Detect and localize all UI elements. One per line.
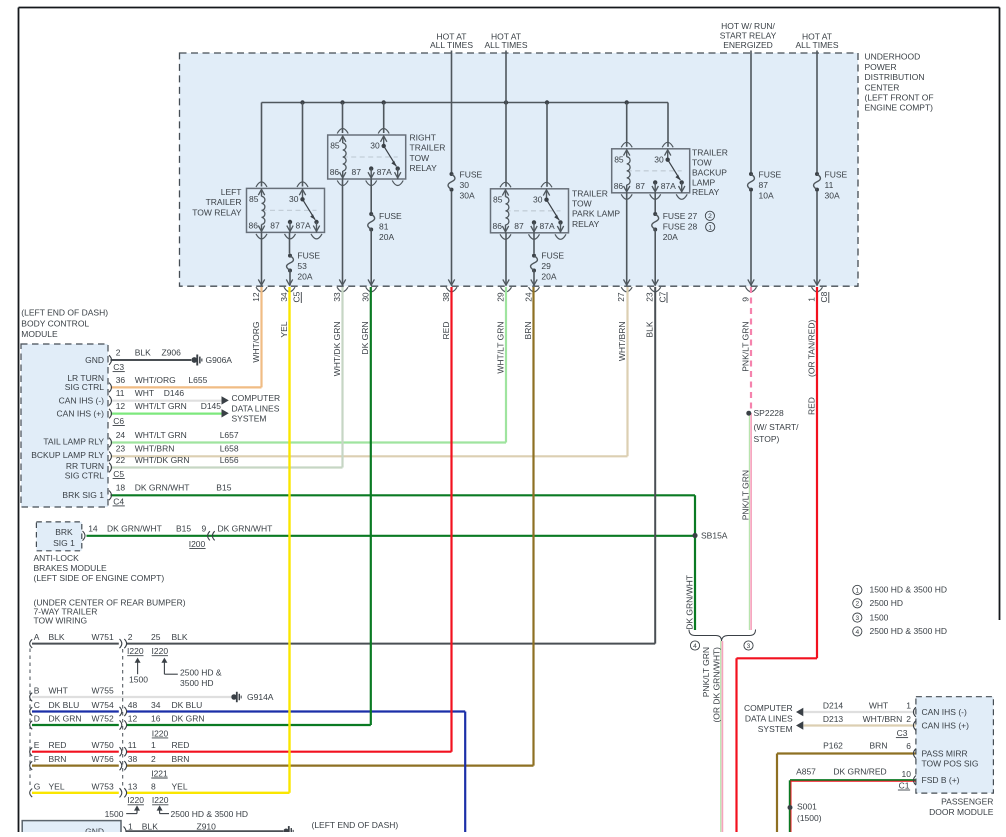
svg-text:POWER: POWER	[865, 62, 897, 72]
svg-text:1500: 1500	[105, 809, 124, 819]
svg-text:C3: C3	[113, 362, 124, 372]
svg-text:FUSE 28: FUSE 28	[663, 222, 698, 232]
svg-text:DK BLU: DK BLU	[172, 700, 203, 710]
svg-text:S001: S001	[797, 801, 817, 811]
svg-text:C: C	[34, 700, 40, 710]
svg-text:I220: I220	[152, 795, 169, 805]
svg-text:START RELAY: START RELAY	[720, 31, 777, 41]
svg-text:1: 1	[855, 587, 859, 594]
svg-text:WHT: WHT	[49, 686, 68, 696]
svg-text:20A: 20A	[379, 232, 394, 242]
svg-text:1: 1	[708, 224, 712, 231]
svg-text:D214: D214	[823, 700, 844, 710]
svg-text:2: 2	[151, 754, 156, 764]
svg-text:DATA LINES: DATA LINES	[745, 713, 793, 723]
svg-text:MODULE: MODULE	[21, 329, 58, 339]
svg-text:2: 2	[128, 632, 133, 642]
svg-text:2500 HD & 3500 HD: 2500 HD & 3500 HD	[870, 626, 948, 636]
svg-text:L656: L656	[220, 455, 239, 465]
svg-text:WHT/LT GRN: WHT/LT GRN	[495, 322, 505, 374]
svg-text:WHT: WHT	[135, 388, 154, 398]
svg-text:20A: 20A	[541, 271, 556, 281]
svg-text:DK GRN/WHT: DK GRN/WHT	[107, 523, 162, 533]
svg-text:BCKUP LAMP RLY: BCKUP LAMP RLY	[31, 450, 104, 460]
svg-text:1500 HD & 3500 HD: 1500 HD & 3500 HD	[870, 585, 948, 595]
svg-text:G914A: G914A	[247, 692, 274, 702]
svg-text:WHT/ORG: WHT/ORG	[135, 375, 176, 385]
svg-text:BLK: BLK	[645, 321, 655, 337]
svg-text:ALL TIMES: ALL TIMES	[796, 40, 839, 50]
svg-text:YEL: YEL	[279, 321, 289, 337]
svg-text:GND: GND	[85, 827, 104, 833]
svg-text:A857: A857	[796, 767, 816, 777]
svg-text:PASS MIRR: PASS MIRR	[922, 748, 968, 758]
svg-text:LEFT: LEFT	[221, 187, 242, 197]
svg-text:87: 87	[636, 181, 646, 191]
svg-text:CAN IHS (-): CAN IHS (-)	[59, 396, 105, 406]
svg-text:B15: B15	[176, 523, 191, 533]
svg-text:DK GRN/WHT: DK GRN/WHT	[218, 523, 273, 533]
svg-text:RELAY: RELAY	[572, 219, 600, 229]
svg-text:L658: L658	[220, 444, 239, 454]
svg-text:9: 9	[740, 297, 750, 302]
svg-text:PARK LAMP: PARK LAMP	[572, 209, 620, 219]
svg-text:27: 27	[616, 292, 626, 302]
svg-text:E: E	[34, 740, 40, 750]
svg-text:BLK: BLK	[135, 347, 151, 357]
svg-text:W750: W750	[92, 740, 114, 750]
svg-text:2: 2	[708, 213, 712, 220]
svg-text:87A: 87A	[377, 167, 392, 177]
svg-text:FUSE: FUSE	[825, 170, 848, 180]
svg-text:BLK: BLK	[142, 822, 158, 832]
svg-text:30: 30	[654, 154, 664, 164]
svg-text:PNK/LT GRN: PNK/LT GRN	[740, 322, 750, 372]
svg-text:85: 85	[330, 141, 340, 151]
svg-text:36: 36	[116, 375, 126, 385]
svg-text:F: F	[34, 754, 39, 764]
svg-text:SIG CTRL: SIG CTRL	[65, 382, 104, 392]
svg-text:C5: C5	[292, 291, 302, 302]
svg-text:(LEFT FRONT OF: (LEFT FRONT OF	[865, 93, 934, 103]
svg-text:DK BLU: DK BLU	[49, 700, 80, 710]
svg-text:DK GRN: DK GRN	[49, 714, 82, 724]
svg-text:C6: C6	[113, 416, 124, 426]
svg-text:30: 30	[370, 141, 380, 151]
svg-text:RELAY: RELAY	[692, 187, 720, 197]
svg-text:25: 25	[151, 632, 161, 642]
svg-text:TRAILER: TRAILER	[410, 143, 446, 153]
svg-text:(OR TAN/RED): (OR TAN/RED)	[806, 320, 816, 377]
svg-text:WHT/LT GRN: WHT/LT GRN	[135, 430, 187, 440]
svg-text:TAIL LAMP RLY: TAIL LAMP RLY	[43, 436, 104, 446]
svg-text:WHT/LT GRN: WHT/LT GRN	[135, 401, 187, 411]
svg-text:TOW RELAY: TOW RELAY	[192, 207, 242, 217]
svg-text:14: 14	[88, 523, 98, 533]
svg-text:87A: 87A	[540, 221, 555, 231]
svg-text:ALL TIMES: ALL TIMES	[430, 40, 473, 50]
svg-text:ANTI-LOCK: ANTI-LOCK	[34, 553, 80, 563]
svg-text:C5: C5	[113, 469, 124, 479]
svg-text:33: 33	[332, 292, 342, 302]
svg-text:WHT/DK GRN: WHT/DK GRN	[332, 322, 342, 377]
svg-text:12: 12	[251, 292, 261, 302]
svg-text:2500 HD & 3500 HD: 2500 HD & 3500 HD	[171, 809, 249, 819]
svg-text:I221: I221	[151, 768, 168, 778]
svg-text:W752: W752	[92, 714, 114, 724]
svg-text:COMPUTER: COMPUTER	[232, 393, 281, 403]
svg-text:10: 10	[902, 769, 912, 779]
svg-text:9: 9	[202, 523, 207, 533]
svg-text:24: 24	[116, 430, 126, 440]
svg-text:2: 2	[906, 714, 911, 724]
svg-text:I220: I220	[127, 795, 144, 805]
svg-text:(LEFT SIDE OF ENGINE COMPT): (LEFT SIDE OF ENGINE COMPT)	[34, 573, 165, 583]
svg-text:DK GRN: DK GRN	[172, 714, 205, 724]
svg-text:L655: L655	[188, 375, 207, 385]
svg-text:DOOR MODULE: DOOR MODULE	[929, 807, 994, 817]
svg-text:24: 24	[523, 292, 533, 302]
svg-text:C8: C8	[819, 291, 829, 302]
svg-text:W755: W755	[92, 686, 114, 696]
svg-text:TOW POS SIG: TOW POS SIG	[922, 759, 979, 769]
svg-text:23: 23	[116, 444, 126, 454]
svg-text:BLK: BLK	[49, 632, 65, 642]
svg-text:FUSE: FUSE	[297, 251, 320, 261]
svg-text:HOT W/ RUN/: HOT W/ RUN/	[721, 21, 775, 31]
svg-text:8: 8	[151, 781, 156, 791]
svg-text:PNK/LT GRN: PNK/LT GRN	[701, 647, 711, 697]
svg-text:29: 29	[495, 292, 505, 302]
svg-text:18: 18	[116, 483, 126, 493]
svg-text:30A: 30A	[825, 190, 840, 200]
svg-text:4: 4	[693, 643, 697, 650]
svg-text:BRK: BRK	[55, 527, 73, 537]
svg-text:2500 HD &: 2500 HD &	[180, 667, 222, 677]
svg-text:BLK: BLK	[172, 632, 188, 642]
svg-text:UNDERHOOD: UNDERHOOD	[865, 52, 921, 62]
svg-text:16: 16	[151, 714, 161, 724]
svg-text:86: 86	[249, 220, 259, 230]
svg-text:85: 85	[493, 194, 503, 204]
svg-text:3: 3	[747, 643, 751, 650]
svg-text:BRK SIG 1: BRK SIG 1	[62, 490, 104, 500]
svg-text:LAMP: LAMP	[692, 177, 715, 187]
svg-text:BACKUP: BACKUP	[692, 167, 727, 177]
svg-text:Z910: Z910	[197, 822, 217, 832]
svg-text:3: 3	[855, 615, 859, 622]
svg-text:86: 86	[493, 221, 503, 231]
svg-text:1: 1	[806, 297, 816, 302]
svg-text:30: 30	[289, 194, 299, 204]
svg-text:SIG CTRL: SIG CTRL	[65, 471, 104, 481]
svg-text:87: 87	[270, 220, 280, 230]
svg-text:SB15A: SB15A	[701, 531, 728, 541]
svg-text:30A: 30A	[460, 190, 475, 200]
svg-text:W754: W754	[92, 700, 114, 710]
svg-text:WHT/BRN: WHT/BRN	[863, 714, 903, 724]
svg-text:GND: GND	[85, 355, 104, 365]
svg-text:12: 12	[128, 714, 138, 724]
svg-text:34: 34	[151, 700, 161, 710]
svg-text:W756: W756	[92, 754, 114, 764]
svg-text:A: A	[34, 632, 40, 642]
svg-text:TRAILER: TRAILER	[572, 188, 608, 198]
svg-text:FUSE 27: FUSE 27	[663, 211, 698, 221]
svg-text:(W/ START/: (W/ START/	[754, 422, 800, 432]
svg-text:STOP): STOP)	[754, 434, 780, 444]
svg-text:FUSE: FUSE	[379, 211, 402, 221]
svg-text:ENERGIZED: ENERGIZED	[723, 40, 773, 50]
svg-text:87A: 87A	[296, 220, 311, 230]
svg-text:W751: W751	[92, 632, 114, 642]
svg-text:BRN: BRN	[523, 322, 533, 340]
svg-text:L657: L657	[220, 430, 239, 440]
svg-text:(LEFT END OF DASH): (LEFT END OF DASH)	[21, 308, 108, 318]
svg-text:(1500): (1500)	[797, 813, 822, 823]
svg-text:I200: I200	[189, 539, 206, 549]
svg-text:BRAKES MODULE: BRAKES MODULE	[34, 563, 108, 573]
svg-text:I220: I220	[152, 646, 169, 656]
svg-text:SYSTEM: SYSTEM	[758, 724, 793, 734]
svg-text:87: 87	[352, 167, 362, 177]
svg-text:RIGHT: RIGHT	[410, 132, 436, 142]
svg-text:11: 11	[128, 740, 137, 750]
svg-text:85: 85	[249, 194, 259, 204]
svg-text:1: 1	[906, 701, 911, 711]
svg-text:30: 30	[460, 180, 470, 190]
svg-text:34: 34	[279, 292, 289, 302]
svg-text:WHT/ORG: WHT/ORG	[251, 322, 261, 363]
svg-text:DK GRN: DK GRN	[360, 322, 370, 355]
svg-text:86: 86	[330, 167, 340, 177]
svg-text:RED: RED	[172, 740, 190, 750]
svg-text:2: 2	[855, 601, 859, 608]
svg-text:38: 38	[128, 754, 138, 764]
svg-text:G: G	[34, 781, 41, 791]
svg-text:RED: RED	[441, 322, 451, 340]
svg-text:2: 2	[116, 347, 121, 357]
svg-text:ALL TIMES: ALL TIMES	[485, 40, 528, 50]
svg-text:87: 87	[514, 221, 524, 231]
svg-text:DK GRN/WHT: DK GRN/WHT	[135, 483, 190, 493]
svg-text:DK GRN/RED: DK GRN/RED	[833, 767, 886, 777]
svg-text:P162: P162	[823, 740, 843, 750]
svg-text:6: 6	[906, 741, 911, 751]
svg-text:YEL: YEL	[172, 781, 188, 791]
svg-text:PASSENGER: PASSENGER	[941, 796, 993, 806]
svg-text:TOW WIRING: TOW WIRING	[34, 615, 88, 625]
svg-text:CAN IHS (+): CAN IHS (+)	[57, 408, 105, 418]
svg-text:(LEFT END OF DASH): (LEFT END OF DASH)	[312, 820, 399, 830]
svg-text:WHT/BRN: WHT/BRN	[617, 322, 627, 362]
svg-text:CAN IHS (-): CAN IHS (-)	[922, 707, 968, 717]
svg-text:30: 30	[361, 292, 371, 302]
svg-text:DK GRN/WHT: DK GRN/WHT	[684, 575, 694, 630]
svg-text:SYSTEM: SYSTEM	[232, 414, 267, 424]
svg-text:87: 87	[759, 180, 769, 190]
svg-text:4: 4	[855, 629, 859, 636]
svg-text:13: 13	[128, 781, 138, 791]
svg-text:I220: I220	[127, 646, 144, 656]
svg-text:TOW: TOW	[692, 158, 712, 168]
svg-text:DISTRIBUTION: DISTRIBUTION	[865, 72, 925, 82]
svg-text:FUSE: FUSE	[460, 170, 483, 180]
svg-text:BRN: BRN	[172, 754, 190, 764]
svg-text:BRN: BRN	[49, 754, 67, 764]
svg-text:C7: C7	[657, 291, 667, 302]
svg-text:I220: I220	[152, 728, 169, 738]
svg-text:RELAY: RELAY	[410, 163, 438, 173]
svg-text:FUSE: FUSE	[759, 170, 782, 180]
svg-text:(OR DK GRN/WHT): (OR DK GRN/WHT)	[712, 647, 722, 723]
svg-text:C4: C4	[113, 496, 124, 506]
svg-text:CENTER: CENTER	[865, 82, 900, 92]
svg-text:22: 22	[116, 455, 126, 465]
svg-text:SIG 1: SIG 1	[53, 538, 75, 548]
svg-text:30: 30	[533, 194, 543, 204]
svg-text:TRAILER: TRAILER	[692, 148, 728, 158]
svg-text:D146: D146	[164, 388, 185, 398]
svg-text:D213: D213	[823, 714, 844, 724]
svg-text:FSD B (+): FSD B (+)	[922, 775, 960, 785]
svg-text:RED: RED	[806, 397, 816, 415]
svg-text:DATA LINES: DATA LINES	[232, 404, 280, 414]
svg-text:C1: C1	[899, 780, 910, 790]
svg-text:WHT/DK GRN: WHT/DK GRN	[135, 455, 190, 465]
svg-text:11: 11	[116, 388, 125, 398]
svg-text:W753: W753	[92, 781, 114, 791]
svg-text:81: 81	[379, 222, 389, 232]
svg-text:38: 38	[441, 292, 451, 302]
svg-text:G906A: G906A	[206, 355, 233, 365]
svg-text:23: 23	[645, 292, 655, 302]
svg-text:SP2228: SP2228	[754, 408, 785, 418]
svg-text:48: 48	[128, 700, 138, 710]
svg-text:2500 HD: 2500 HD	[870, 598, 904, 608]
svg-text:BODY CONTROL: BODY CONTROL	[21, 318, 89, 328]
svg-text:TOW: TOW	[572, 199, 592, 209]
svg-text:Z906: Z906	[162, 347, 182, 357]
svg-text:RED: RED	[49, 740, 67, 750]
svg-text:10A: 10A	[759, 190, 774, 200]
svg-text:ENGINE COMPT): ENGINE COMPT)	[865, 103, 934, 113]
svg-text:11: 11	[825, 180, 834, 190]
svg-text:1500: 1500	[129, 674, 148, 684]
svg-text:86: 86	[614, 181, 624, 191]
svg-text:D145: D145	[201, 401, 222, 411]
svg-text:12: 12	[116, 401, 126, 411]
svg-text:BRN: BRN	[870, 740, 888, 750]
svg-text:87A: 87A	[661, 181, 676, 191]
svg-text:3500 HD: 3500 HD	[180, 678, 214, 688]
svg-text:C3: C3	[897, 728, 908, 738]
svg-text:53: 53	[297, 261, 307, 271]
svg-text:20A: 20A	[297, 271, 312, 281]
svg-text:B: B	[34, 686, 40, 696]
svg-text:B15: B15	[216, 483, 231, 493]
svg-text:FUSE: FUSE	[541, 251, 564, 261]
svg-text:WHT: WHT	[869, 700, 888, 710]
svg-text:1: 1	[151, 740, 156, 750]
svg-text:TRAILER: TRAILER	[206, 197, 242, 207]
svg-text:YEL: YEL	[49, 781, 65, 791]
svg-text:CAN IHS (+): CAN IHS (+)	[922, 720, 970, 730]
svg-text:1500: 1500	[870, 612, 889, 622]
svg-text:1: 1	[128, 822, 133, 832]
svg-text:WHT/BRN: WHT/BRN	[135, 444, 175, 454]
svg-text:TOW: TOW	[410, 153, 430, 163]
svg-text:85: 85	[614, 154, 624, 164]
svg-text:20A: 20A	[663, 232, 678, 242]
svg-text:PNK/LT GRN: PNK/LT GRN	[740, 470, 750, 520]
svg-text:D: D	[34, 714, 40, 724]
svg-text:29: 29	[541, 261, 551, 271]
svg-text:COMPUTER: COMPUTER	[744, 703, 793, 713]
